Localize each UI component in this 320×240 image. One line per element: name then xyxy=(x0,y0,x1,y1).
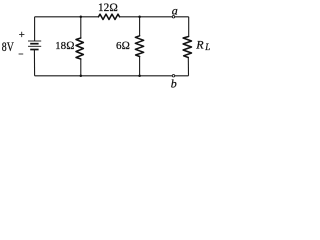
wire 18ohm branch top stub xyxy=(80,17,82,38)
resistor 6ohm zigzag xyxy=(135,36,143,57)
resistor RL zigzag xyxy=(183,37,191,58)
svg-text:18Ω: 18Ω xyxy=(55,40,74,52)
svg-text:L: L xyxy=(204,42,210,52)
wire 6ohm branch top stub xyxy=(139,17,141,36)
wire left rail bottom (battery bottom lead) xyxy=(33,50,35,76)
svg-text:8V: 8V xyxy=(2,40,15,54)
wire 18ohm branch bottom stub xyxy=(80,59,82,76)
battery 8V short plate 1 xyxy=(30,43,38,45)
terminal a open circle xyxy=(172,16,174,18)
junction dot top 18ohm xyxy=(80,16,83,19)
wire right rail bottom xyxy=(187,58,189,76)
junction dot bottom 6ohm xyxy=(138,75,141,78)
svg-text:6Ω: 6Ω xyxy=(116,40,130,52)
wire left rail top (battery top lead) xyxy=(34,17,36,41)
wire right rail top xyxy=(188,17,190,37)
svg-text:b: b xyxy=(171,77,177,91)
battery 8V long plate 1 xyxy=(28,40,41,42)
wire bottom rail xyxy=(35,75,189,77)
resistor R 12ohm zigzag xyxy=(99,14,120,19)
resistor 18ohm zigzag xyxy=(76,38,83,59)
battery plus sign xyxy=(19,32,24,37)
battery 8V short plate 2 xyxy=(30,49,38,51)
svg-text:12Ω: 12Ω xyxy=(98,2,118,14)
terminal b open circle xyxy=(172,75,174,77)
battery 8V long plate 2 xyxy=(28,45,41,47)
wire top rail xyxy=(35,16,189,18)
wire 6ohm branch bottom stub xyxy=(139,57,141,76)
battery minus sign xyxy=(19,53,24,55)
svg-text:a: a xyxy=(172,4,178,18)
junction dot top 6ohm xyxy=(138,16,141,19)
svg-text:R: R xyxy=(195,38,204,52)
junction dot bottom 18ohm xyxy=(80,75,83,78)
